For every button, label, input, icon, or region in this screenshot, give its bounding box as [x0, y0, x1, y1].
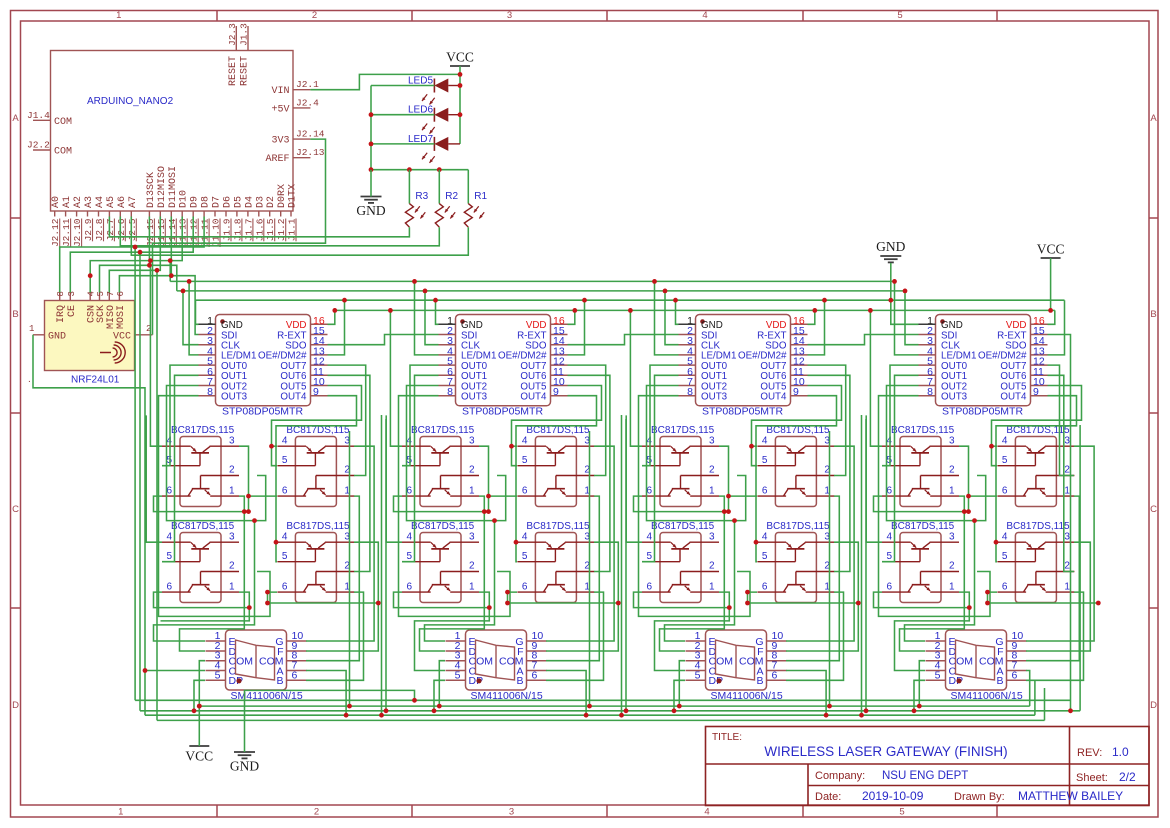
svg-text:4: 4: [702, 10, 707, 21]
svg-text:4: 4: [762, 436, 768, 447]
svg-text:OUT4: OUT4: [280, 392, 307, 403]
svg-text:J2.1: J2.1: [296, 79, 319, 90]
svg-text:8: 8: [207, 386, 213, 398]
svg-text:R2: R2: [445, 191, 458, 202]
svg-text:A: A: [1150, 113, 1157, 124]
svg-text:6: 6: [406, 486, 412, 497]
svg-text:VIN: VIN: [271, 86, 289, 97]
svg-text:BC817DS,115: BC817DS,115: [286, 521, 350, 532]
svg-text:BC817DS,115: BC817DS,115: [891, 425, 955, 436]
svg-text:5: 5: [1002, 455, 1008, 466]
svg-text:6: 6: [532, 669, 538, 681]
svg-text:J2.2: J2.2: [27, 140, 50, 151]
svg-text:D1TX: D1TX: [288, 184, 299, 208]
svg-text:R3: R3: [415, 191, 428, 202]
svg-text:5: 5: [886, 551, 892, 562]
svg-text:BC817DS,115: BC817DS,115: [411, 425, 475, 436]
svg-text:8: 8: [927, 386, 933, 398]
svg-text:1: 1: [1064, 486, 1070, 497]
svg-text:6: 6: [762, 486, 768, 497]
svg-text:J2.13: J2.13: [296, 147, 325, 158]
svg-text:5: 5: [646, 551, 652, 562]
svg-text:D13SCK: D13SCK: [146, 172, 157, 208]
svg-text:C: C: [1150, 504, 1157, 515]
svg-text:3: 3: [229, 436, 235, 447]
svg-text:D2: D2: [266, 196, 277, 208]
svg-text:STP08DP05MTR: STP08DP05MTR: [462, 406, 544, 418]
svg-text:NRF24L01: NRF24L01: [71, 375, 120, 386]
svg-text:6: 6: [646, 582, 652, 593]
svg-text:6: 6: [522, 486, 528, 497]
svg-text:3: 3: [1064, 436, 1070, 447]
svg-text:NSU ENG DEPT: NSU ENG DEPT: [882, 770, 968, 782]
svg-text:8: 8: [447, 386, 453, 398]
svg-text:1.0: 1.0: [1112, 745, 1129, 759]
svg-text:4: 4: [282, 436, 288, 447]
svg-text:6: 6: [166, 582, 172, 593]
svg-text:2: 2: [314, 807, 319, 818]
svg-text:Sheet:: Sheet:: [1076, 772, 1108, 784]
svg-text:STP08DP05MTR: STP08DP05MTR: [942, 406, 1024, 418]
svg-text:A2: A2: [73, 196, 84, 208]
svg-text:4: 4: [646, 532, 652, 543]
svg-text:4: 4: [406, 532, 412, 543]
svg-text:BC817DS,115: BC817DS,115: [651, 425, 715, 436]
svg-text:5: 5: [406, 551, 412, 562]
svg-text:3: 3: [709, 532, 715, 543]
svg-text:5: 5: [282, 551, 288, 562]
svg-text:7: 7: [106, 291, 116, 296]
svg-text:9: 9: [313, 386, 319, 398]
svg-text:J1.4: J1.4: [27, 110, 50, 121]
svg-text:4: 4: [886, 532, 892, 543]
svg-text:IRQ: IRQ: [56, 305, 67, 323]
svg-text:LED7: LED7: [408, 134, 433, 145]
svg-text:2: 2: [709, 465, 715, 476]
svg-text:+5V: +5V: [271, 104, 289, 115]
svg-text:3: 3: [469, 436, 475, 447]
svg-text:VCC: VCC: [1037, 242, 1065, 257]
svg-text:B: B: [996, 675, 1003, 687]
svg-text:3: 3: [67, 291, 77, 296]
svg-text:6: 6: [282, 486, 288, 497]
svg-text:B: B: [276, 675, 283, 687]
svg-text:5: 5: [762, 551, 768, 562]
svg-text:3: 3: [709, 436, 715, 447]
svg-text:4: 4: [704, 807, 709, 818]
svg-text:GND: GND: [356, 203, 385, 218]
svg-text:3: 3: [949, 532, 955, 543]
svg-text:J1.3: J1.3: [239, 23, 250, 46]
svg-text:4: 4: [522, 532, 528, 543]
svg-text:2: 2: [949, 465, 955, 476]
svg-text:4: 4: [762, 532, 768, 543]
svg-text:1: 1: [1064, 582, 1070, 593]
svg-text:1: 1: [29, 324, 34, 334]
svg-text:J2.3: J2.3: [227, 23, 238, 46]
svg-text:D10: D10: [179, 190, 190, 208]
svg-text:BC817DS,115: BC817DS,115: [766, 521, 830, 532]
svg-text:4: 4: [1002, 532, 1008, 543]
svg-text:A7: A7: [128, 196, 139, 208]
svg-text:5: 5: [897, 10, 902, 21]
svg-text:6: 6: [292, 669, 298, 681]
svg-text:2: 2: [229, 465, 235, 476]
svg-text:ARDUINO_NANO2: ARDUINO_NANO2: [87, 96, 174, 107]
svg-text:OUT3: OUT3: [701, 392, 728, 403]
svg-text:6: 6: [1002, 486, 1008, 497]
svg-text:A5: A5: [106, 196, 117, 208]
svg-text:6: 6: [522, 582, 528, 593]
svg-text:GND: GND: [876, 239, 905, 254]
svg-text:BC817DS,115: BC817DS,115: [286, 425, 350, 436]
svg-text:Date:: Date:: [815, 791, 841, 803]
svg-text:D11MOSI: D11MOSI: [168, 166, 179, 208]
svg-text:RESET: RESET: [240, 56, 251, 86]
svg-text:1: 1: [229, 582, 235, 593]
svg-text:4: 4: [282, 532, 288, 543]
svg-text:1: 1: [709, 486, 715, 497]
svg-text:A4: A4: [95, 196, 106, 208]
svg-text:A1: A1: [62, 196, 73, 208]
svg-text:2: 2: [1064, 561, 1070, 572]
svg-text:C: C: [12, 504, 19, 515]
svg-text:B: B: [12, 309, 18, 320]
svg-text:Company:: Company:: [815, 770, 865, 782]
svg-text:D7: D7: [212, 196, 223, 208]
svg-text:3: 3: [1064, 532, 1070, 543]
svg-text:6: 6: [772, 669, 778, 681]
svg-text:OUT4: OUT4: [520, 392, 547, 403]
svg-text:5: 5: [1002, 551, 1008, 562]
svg-text:2: 2: [949, 561, 955, 572]
svg-text:4: 4: [1002, 436, 1008, 447]
svg-text:BC817DS,115: BC817DS,115: [171, 521, 235, 532]
svg-text:BC817DS,115: BC817DS,115: [766, 425, 830, 436]
svg-text:9: 9: [553, 386, 559, 398]
svg-text:R1: R1: [474, 191, 487, 202]
svg-text:2/2: 2/2: [1119, 770, 1136, 784]
svg-text:LED6: LED6: [408, 105, 433, 116]
svg-text:2019-10-09: 2019-10-09: [862, 789, 924, 803]
svg-text:A3: A3: [84, 196, 95, 208]
svg-text:BC817DS,115: BC817DS,115: [526, 521, 590, 532]
svg-text:1: 1: [469, 582, 475, 593]
svg-text:Drawn By:: Drawn By:: [954, 791, 1005, 803]
svg-text:BC817DS,115: BC817DS,115: [651, 521, 715, 532]
svg-text:A6: A6: [117, 196, 128, 208]
svg-text:D6: D6: [223, 196, 234, 208]
svg-text:RESET: RESET: [228, 56, 239, 86]
svg-text:4: 4: [522, 436, 528, 447]
svg-text:2: 2: [229, 561, 235, 572]
svg-text:6: 6: [406, 582, 412, 593]
svg-text:STP08DP05MTR: STP08DP05MTR: [702, 406, 784, 418]
svg-text:STP08DP05MTR: STP08DP05MTR: [222, 406, 304, 418]
svg-text:J2.4: J2.4: [296, 97, 319, 108]
svg-text:1: 1: [949, 582, 955, 593]
svg-text:5: 5: [695, 669, 701, 681]
svg-text:A: A: [12, 113, 19, 124]
svg-text:6: 6: [116, 291, 126, 296]
svg-text:GND: GND: [48, 331, 66, 342]
svg-text:COM: COM: [54, 117, 72, 128]
svg-text:2: 2: [709, 561, 715, 572]
svg-text:9: 9: [1033, 386, 1039, 398]
svg-text:GND: GND: [230, 759, 259, 774]
svg-text:6: 6: [166, 486, 172, 497]
svg-text:2: 2: [469, 465, 475, 476]
svg-text:2: 2: [1064, 465, 1070, 476]
svg-text:VCC: VCC: [113, 331, 131, 342]
svg-text:4: 4: [166, 532, 172, 543]
svg-text:D3: D3: [255, 196, 266, 208]
svg-text:D5: D5: [233, 196, 244, 208]
svg-text:2: 2: [469, 561, 475, 572]
svg-text:6: 6: [282, 582, 288, 593]
svg-text:1: 1: [709, 582, 715, 593]
svg-text:1: 1: [949, 486, 955, 497]
svg-text:MOSI: MOSI: [116, 305, 127, 329]
svg-text:COM: COM: [54, 147, 72, 158]
svg-text:AREF: AREF: [265, 154, 289, 165]
svg-text:5: 5: [215, 669, 221, 681]
svg-text:1: 1: [229, 486, 235, 497]
svg-text:5: 5: [522, 551, 528, 562]
svg-text:OUT4: OUT4: [1000, 392, 1027, 403]
svg-text:B: B: [756, 675, 763, 687]
svg-text:5: 5: [899, 807, 904, 818]
svg-text:WIRELESS LASER GATEWAY (FINISH: WIRELESS LASER GATEWAY (FINISH): [764, 744, 1007, 759]
svg-text:BC817DS,115: BC817DS,115: [1006, 521, 1070, 532]
svg-text:3V3: 3V3: [271, 136, 289, 147]
svg-text:LED5: LED5: [408, 76, 433, 87]
svg-text:OUT3: OUT3: [461, 392, 488, 403]
svg-text:OUT4: OUT4: [760, 392, 787, 403]
svg-text:1: 1: [469, 486, 475, 497]
svg-text:6: 6: [886, 486, 892, 497]
svg-text:3: 3: [509, 807, 514, 818]
svg-text:D12MISO: D12MISO: [157, 166, 168, 208]
svg-text:MATTHEW BAILEY: MATTHEW BAILEY: [1018, 789, 1123, 803]
svg-text:1: 1: [118, 807, 123, 818]
svg-text:A0: A0: [51, 196, 62, 208]
svg-text:.: .: [28, 374, 31, 385]
svg-text:BC817DS,115: BC817DS,115: [891, 521, 955, 532]
svg-text:5: 5: [935, 669, 941, 681]
svg-text:OUT3: OUT3: [941, 392, 968, 403]
svg-text:D8: D8: [201, 196, 212, 208]
svg-text:D4: D4: [244, 196, 255, 208]
svg-text:B: B: [1150, 309, 1156, 320]
svg-text:BC817DS,115: BC817DS,115: [526, 425, 590, 436]
svg-text:5: 5: [96, 291, 106, 296]
svg-text:CE: CE: [67, 305, 78, 317]
svg-text:3: 3: [229, 532, 235, 543]
svg-text:1: 1: [116, 10, 121, 21]
svg-text:6: 6: [762, 582, 768, 593]
svg-text:3: 3: [949, 436, 955, 447]
svg-text:3: 3: [507, 10, 512, 21]
svg-text:6: 6: [1002, 582, 1008, 593]
svg-text:D: D: [1150, 700, 1157, 711]
svg-text:6: 6: [646, 486, 652, 497]
svg-text:5: 5: [166, 551, 172, 562]
svg-text:REV:: REV:: [1077, 747, 1102, 759]
svg-text:BC817DS,115: BC817DS,115: [1006, 425, 1070, 436]
svg-text:OUT3: OUT3: [221, 392, 248, 403]
svg-text:TITLE:: TITLE:: [712, 732, 742, 743]
svg-text:B: B: [516, 675, 523, 687]
svg-text:5: 5: [282, 455, 288, 466]
svg-text:9: 9: [793, 386, 799, 398]
svg-text:5: 5: [522, 455, 528, 466]
svg-text:D9: D9: [190, 196, 201, 208]
svg-text:8: 8: [56, 291, 66, 296]
svg-text:2: 2: [312, 10, 317, 21]
svg-text:VCC: VCC: [446, 50, 474, 65]
svg-text:J2.14: J2.14: [296, 129, 325, 140]
svg-text:BC817DS,115: BC817DS,115: [171, 425, 235, 436]
svg-text:8: 8: [687, 386, 693, 398]
svg-text:5: 5: [455, 669, 461, 681]
svg-text:6: 6: [886, 582, 892, 593]
svg-text:BC817DS,115: BC817DS,115: [411, 521, 475, 532]
svg-text:D: D: [12, 700, 19, 711]
svg-text:3: 3: [469, 532, 475, 543]
svg-text:VCC: VCC: [185, 749, 213, 764]
svg-text:6: 6: [1012, 669, 1018, 681]
svg-text:5: 5: [762, 455, 768, 466]
